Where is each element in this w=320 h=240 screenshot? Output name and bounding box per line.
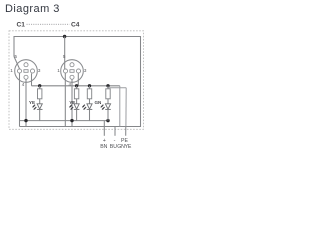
- wire PE exit: [125, 127, 127, 136]
- svg-text:1: 1: [57, 68, 60, 73]
- LED V2 YE: [69, 104, 79, 121]
- node junction dot branch R1: [38, 84, 41, 87]
- svg-text:-: -: [114, 138, 116, 144]
- connector C1 body: [15, 60, 38, 83]
- node junction dot branch R4: [106, 84, 109, 87]
- wire C2 pin1 feed: [64, 37, 66, 70]
- wire PE feed: [108, 87, 126, 89]
- svg-text:1: 1: [10, 68, 13, 73]
- wire diagonal feed to C1 pin1: [14, 57, 20, 70]
- connector C2 body: [61, 60, 84, 83]
- wire C2 pin1 drop: [64, 73, 66, 127]
- svg-text:C4: C4: [71, 21, 80, 28]
- svg-text:4: 4: [22, 82, 25, 87]
- LED V4 GN: [100, 104, 110, 121]
- svg-text:C1: C1: [17, 21, 26, 28]
- svg-text:3: 3: [38, 68, 41, 73]
- resistor R1: [38, 86, 42, 104]
- svg-text:5: 5: [15, 54, 18, 59]
- LED V3 GN: [82, 104, 92, 121]
- node junction dot C2 pin4 on minus bus: [70, 119, 73, 122]
- svg-text:BU: BU: [110, 144, 117, 150]
- svg-text:3: 3: [84, 68, 87, 73]
- resistor R2: [74, 86, 78, 104]
- node junction dot branch R2: [75, 84, 78, 87]
- wire minus drop: [119, 86, 121, 127]
- wire C1-C4 dashed leader: [27, 23, 70, 25]
- node junction dot on top bus (C2 feed): [63, 35, 66, 38]
- enclosure dashed box: [9, 31, 144, 130]
- svg-text:BN: BN: [100, 144, 107, 150]
- svg-text:YE: YE: [69, 100, 75, 105]
- wire minus bus: [20, 120, 109, 122]
- wire minus exit: [114, 127, 116, 136]
- wire C2 pin3 drop: [77, 73, 79, 85]
- wire branch bus: [32, 85, 120, 87]
- wire PE drop: [125, 88, 127, 127]
- svg-text:+: +: [103, 138, 106, 144]
- svg-text:4: 4: [69, 82, 72, 87]
- resistor R3: [87, 86, 91, 104]
- wire C1 pin1 drop: [19, 73, 21, 127]
- wire C1 pin3 drop: [31, 73, 33, 85]
- wire + bus ring (top, right, bottom): [14, 37, 141, 127]
- wire C1 pin4 drop to minus bus: [25, 79, 27, 126]
- svg-text:YE: YE: [29, 100, 35, 105]
- wire C2 pin4 drop to minus bus: [71, 79, 73, 126]
- LED V1 YE: [32, 104, 42, 121]
- svg-text:GNYE: GNYE: [117, 144, 132, 150]
- svg-text:PE: PE: [121, 138, 128, 144]
- node junction dot C1 pin4 on minus bus: [24, 119, 27, 122]
- svg-text:Diagram 3: Diagram 3: [5, 3, 60, 15]
- svg-text:GN: GN: [94, 100, 102, 105]
- wire plus exit: [103, 121, 105, 136]
- node junction dot branch R4 on minus bus: [106, 119, 109, 122]
- svg-text:5: 5: [63, 54, 66, 59]
- node junction dot branch R3: [88, 84, 91, 87]
- resistor R4: [106, 86, 110, 104]
